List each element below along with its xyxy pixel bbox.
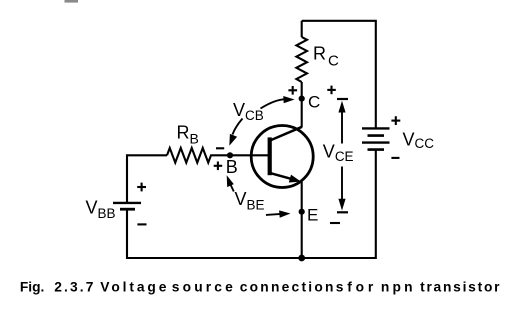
svg-text:B: B	[226, 157, 238, 177]
svg-text:for: for	[347, 279, 374, 294]
svg-text:npn: npn	[381, 279, 413, 294]
svg-text:Fig.: Fig.	[20, 279, 44, 294]
svg-text:connections: connections	[240, 279, 344, 294]
svg-text:2.3.7: 2.3.7	[54, 279, 94, 294]
svg-text:C: C	[308, 92, 320, 111]
svg-text:E: E	[307, 205, 318, 224]
